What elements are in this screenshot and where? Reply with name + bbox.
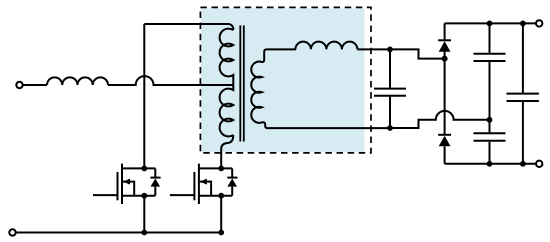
transformer isolation box fill <box>201 8 365 152</box>
input terminal (open circle) <box>16 82 22 88</box>
transformer core line 1 <box>239 25 241 141</box>
transistor Q1 gate lead stub <box>93 194 118 196</box>
wire: Q2 source to ground rail <box>220 196 222 233</box>
diode D1 (top rectifier) lead from top rail <box>444 23 446 40</box>
node C (between D1 and D2) <box>442 56 448 62</box>
capacitor C4 plates <box>507 94 539 101</box>
wire: L1 to primary center tap, with crossover hop over drain line <box>108 76 233 85</box>
wire: bottom output rail <box>445 163 536 165</box>
transformer isolation box dashed border <box>200 7 371 153</box>
capacitor C3 top wire <box>489 120 491 133</box>
transistor Q2 source arrowhead <box>200 179 207 185</box>
transformer T1 secondary winding (4 humps) with top lead step <box>251 49 296 122</box>
transistor Q1 bottom edge <box>122 195 155 197</box>
capacitor C4 bottom wire <box>522 102 524 164</box>
transistor Q2 body diode upper lead <box>231 168 233 177</box>
transistor Q2 drain node dot <box>218 166 224 172</box>
transistor Q1 source arrowhead <box>123 179 130 185</box>
capacitor C3 plates <box>474 133 506 141</box>
node H (C2/C3 junction) <box>487 117 493 123</box>
node A (top of C1) <box>387 47 393 53</box>
transformer core line 2 <box>243 25 245 141</box>
transistor Q1 gate bar <box>117 172 119 200</box>
wire: bottom ground rail <box>16 232 222 234</box>
wire: L2 to top output node <box>357 48 390 50</box>
transistor Q1 body diode upper lead <box>154 168 156 177</box>
capacitor C3 bottom wire <box>489 142 491 164</box>
transistor Q2 body diode triangle <box>227 179 237 187</box>
transistor Q2 source node dot <box>218 193 224 199</box>
diode D1 cathode bar <box>438 39 451 41</box>
node E (top rail / C4) <box>520 21 526 27</box>
transistor Q1 drain node dot <box>141 166 147 172</box>
transistor Q1 channel bar <box>121 164 123 204</box>
capacitor C1 top wire <box>389 49 391 87</box>
transformer T1 primary winding (center-tapped, 3+3 humps) <box>220 29 234 137</box>
wire: left vertical, primary top lead to Q1 drain <box>143 24 145 168</box>
diode D2 triangle <box>439 136 451 147</box>
transistor Q1 top edge <box>122 167 155 169</box>
transistor Q1 source node dot <box>141 193 147 199</box>
transistor Q1 source arrow line <box>122 182 134 196</box>
transistor Q2 bottom edge <box>199 195 232 197</box>
diode D1 triangle <box>439 41 451 52</box>
wire: input terminal to inductor L1 <box>23 84 47 86</box>
wire: D2 anode to bottom rail <box>444 146 446 164</box>
transistor Q2 body diode cathode bar <box>227 177 237 179</box>
wire: top output rail <box>445 22 536 24</box>
capacitor C2 bottom wire <box>489 62 491 120</box>
wire: primary bottom lead S-curve down to Q2 drain <box>221 135 233 168</box>
wire: diode chain vertical D1 anode to D2 cathode <box>444 52 446 135</box>
node G (bottom rail / C4) <box>520 161 526 167</box>
output terminal - (open circle) <box>536 161 542 167</box>
node D (top rail / C2) <box>487 21 493 27</box>
diode D2 cathode bar <box>438 134 451 136</box>
wire: horizontal top lead into primary winding <box>144 24 233 30</box>
inductor L2 (output choke, 4 humps) <box>295 42 357 50</box>
transistor Q1 body diode triangle <box>151 179 161 187</box>
transistor Q2 source arrow line <box>199 182 211 196</box>
transistor Q2 gate bar <box>193 172 195 200</box>
node J (Q2 source on rail) <box>218 230 224 236</box>
wire: bottom node jog up, hop over diode line, to C2/C3 node <box>390 111 490 128</box>
transistor Q2 channel bar <box>198 164 200 204</box>
transistor Q1 body diode cathode bar <box>150 177 160 179</box>
transistor Q2 body diode lower lead <box>231 187 233 196</box>
capacitor C4 top wire <box>522 23 524 92</box>
node I (Q1 source on rail) <box>141 230 147 236</box>
transistor Q2 top edge <box>199 167 232 169</box>
transistor Q2 gate lead stub <box>170 194 195 196</box>
ground terminal (open circle) <box>9 229 15 235</box>
node B (bottom of C1) <box>387 125 393 131</box>
capacitor C1 plates <box>374 89 406 96</box>
wire: secondary bottom lead step down and run to C1 bottom node <box>262 122 391 128</box>
capacitor C2 plates <box>474 54 506 61</box>
node F (bottom rail / C3) <box>487 161 493 167</box>
inductor L1 (input choke, 4 humps) <box>47 77 108 85</box>
wire: top node jog to diode D1 anode node <box>390 49 445 58</box>
wire: Q1 source to ground rail <box>143 196 145 233</box>
capacitor C1 bottom wire <box>389 97 391 128</box>
transistor Q1 body diode lower lead <box>154 187 156 196</box>
capacitor C2 top wire <box>489 23 491 52</box>
output terminal + (open circle) <box>536 20 542 26</box>
